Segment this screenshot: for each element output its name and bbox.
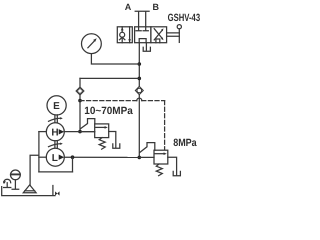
svg-text:B: B bbox=[153, 2, 160, 12]
wire hp line bbox=[80, 77, 139, 79]
strainer bbox=[23, 185, 36, 193]
valve U1 box3 small bypass bbox=[156, 39, 160, 43]
valve T drain pipe bbox=[145, 43, 147, 51]
wire P line lower bbox=[138, 95, 140, 158]
relief valve V1 box bbox=[95, 124, 109, 138]
svg-text:10~70MPa: 10~70MPa bbox=[84, 105, 133, 117]
wire H suction bbox=[39, 131, 47, 133]
valve U1 box1 down path bbox=[128, 27, 131, 43]
check valve left (diamond) bbox=[76, 87, 84, 95]
valve U1 box2 P-T bypass bbox=[139, 39, 146, 43]
pilot line dashed horizontal bbox=[80, 100, 137, 102]
valve U1 box2 (center position) bbox=[135, 27, 151, 43]
valve U1 box2 blocked A bbox=[136, 27, 141, 31]
relief valve V1 input wire bbox=[80, 131, 95, 133]
unloading valve V2 box bbox=[154, 150, 168, 164]
relief valve V1 tank bbox=[113, 144, 120, 148]
unloading valve V2 tank bbox=[173, 171, 180, 175]
rotation arrow E-H bbox=[49, 117, 63, 121]
wire bypass riser bbox=[72, 157, 74, 172]
pump L bbox=[46, 148, 64, 166]
svg-text:L: L bbox=[52, 153, 58, 164]
unloading valve V2 arrow bbox=[155, 152, 167, 155]
tank main bbox=[2, 186, 55, 196]
node dot hp line bbox=[138, 77, 142, 81]
valve U1 box2 blocked B bbox=[143, 27, 148, 31]
pump H bbox=[46, 123, 64, 141]
relief valve V1 arrow bbox=[96, 126, 108, 129]
valve U1 box3 diag up arrow bbox=[154, 28, 163, 40]
pilot line hop over P bbox=[137, 98, 142, 100]
node dot L outlet bbox=[71, 155, 75, 159]
unloading valve V2 spring bbox=[156, 164, 162, 176]
wire left riser upper bbox=[79, 78, 81, 87]
wire suction riser bbox=[38, 132, 40, 172]
valve U1 box1 check path bbox=[120, 27, 125, 43]
check valve right (diamond) bbox=[135, 86, 143, 94]
node dot pilot tap bbox=[78, 99, 82, 103]
svg-text:E: E bbox=[53, 101, 60, 112]
valve U1 box3 (crossed position) bbox=[151, 27, 167, 43]
wire left riser lower bbox=[79, 95, 81, 132]
svg-text:GSHV-43: GSHV-43 bbox=[168, 12, 200, 24]
wire strainer branch bbox=[30, 155, 39, 185]
lever stem bbox=[167, 33, 180, 36]
wire P line upper bbox=[138, 43, 140, 87]
rotation arrow H-L bbox=[49, 143, 63, 147]
unloading valve V2 pilot bend bbox=[140, 143, 155, 153]
node dot gauge line bbox=[138, 62, 142, 66]
relief valve V1 pilot bend bbox=[81, 119, 95, 129]
node dot H outlet bbox=[78, 130, 82, 134]
shaft E-H bbox=[55, 115, 57, 123]
pressure gauge bbox=[82, 34, 102, 54]
valve U1 box3 diag down arrow bbox=[154, 29, 163, 41]
port A stub bbox=[135, 11, 141, 27]
lever knob bbox=[177, 25, 181, 29]
lever handle bbox=[178, 29, 180, 43]
svg-text:8MPa: 8MPa bbox=[173, 137, 197, 149]
pilot line dashed vertical bbox=[164, 101, 166, 150]
level gauge bbox=[11, 170, 21, 189]
motor E bbox=[47, 96, 66, 115]
tank under valve bbox=[143, 47, 150, 51]
svg-text:A: A bbox=[125, 2, 132, 12]
pilot line dashed horizontal right bbox=[142, 100, 165, 102]
wire H outlet bbox=[64, 131, 95, 133]
wire L outlet line bbox=[64, 156, 139, 158]
unloading valve V2 drain wire bbox=[168, 157, 177, 175]
unloading valve V2 input wire bbox=[139, 156, 154, 158]
wire gauge stem bbox=[91, 54, 139, 64]
relief valve V1 spring bbox=[99, 138, 105, 150]
relief valve V1 drain wire bbox=[109, 132, 116, 148]
wire bypass bottom bbox=[39, 171, 73, 173]
port B stub bbox=[143, 11, 149, 27]
wire L suction bbox=[39, 156, 47, 158]
filler breather bbox=[3, 179, 11, 187]
drain plug valve bbox=[55, 191, 59, 195]
node dot bottom bbox=[138, 156, 142, 160]
svg-text:H: H bbox=[51, 127, 58, 138]
valve U1 box1 (check section) bbox=[117, 27, 132, 43]
shaft H-L bbox=[55, 141, 57, 149]
